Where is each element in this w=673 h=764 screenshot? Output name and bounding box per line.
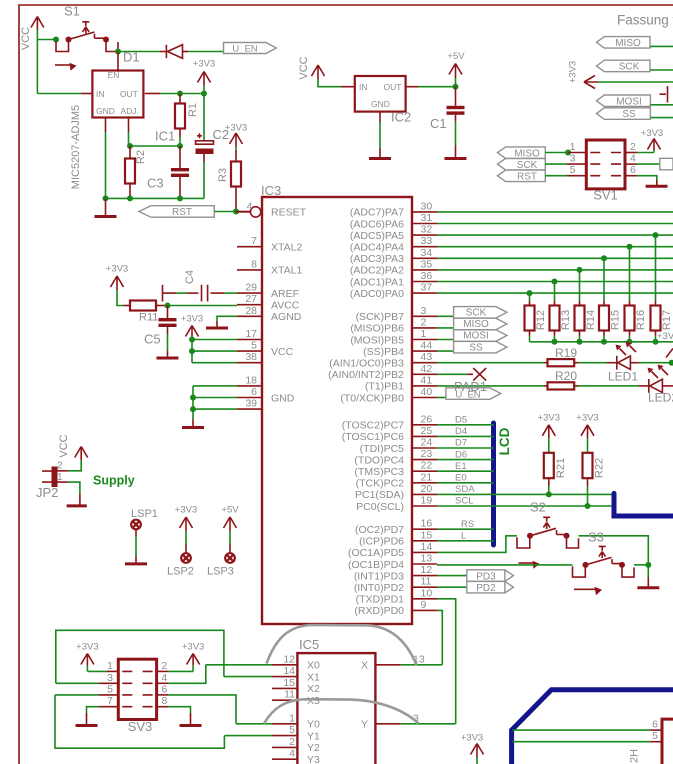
svg-text:JP2: JP2 bbox=[36, 485, 58, 500]
svg-text:6: 6 bbox=[652, 719, 658, 731]
svg-text:RS: RS bbox=[461, 519, 474, 530]
svg-text:24: 24 bbox=[421, 437, 433, 449]
switch S1 bbox=[55, 4, 118, 71]
svg-text:31: 31 bbox=[421, 212, 433, 224]
svg-text:RESET: RESET bbox=[271, 207, 307, 219]
wire X out to RXD bbox=[401, 664, 442, 666]
svg-text:44: 44 bbox=[421, 340, 433, 352]
resistor R3 bbox=[217, 150, 241, 212]
svg-text:38: 38 bbox=[245, 351, 257, 363]
svg-text:L: L bbox=[461, 531, 466, 542]
power VCC (IC2) bbox=[298, 56, 325, 79]
jumper JP2 bbox=[36, 460, 68, 500]
svg-text:7: 7 bbox=[107, 695, 113, 707]
svg-text:R12: R12 bbox=[535, 310, 547, 330]
net flag RST bbox=[139, 206, 214, 218]
svg-text:(INT1)PD3: (INT1)PD3 bbox=[354, 570, 404, 582]
wire AVCC bbox=[168, 305, 238, 307]
wire JP2 pin1 to ground bbox=[68, 482, 80, 494]
svg-text:SDA: SDA bbox=[455, 484, 475, 495]
wire Y0 entry bbox=[236, 723, 272, 725]
pin 2 Y2 bbox=[272, 736, 297, 748]
wire SV3 pin5 (Y1 net) bbox=[55, 694, 99, 696]
svg-text:R14: R14 bbox=[585, 310, 597, 330]
svg-text:C5: C5 bbox=[144, 332, 161, 347]
svg-text:23: 23 bbox=[421, 448, 433, 460]
svg-text:MISO: MISO bbox=[615, 38, 641, 49]
switch S2 bbox=[517, 500, 579, 569]
wire Y out to TXD bbox=[401, 723, 456, 725]
svg-text:VCC: VCC bbox=[20, 27, 32, 50]
wire S3 out bbox=[634, 564, 648, 566]
net flag RST (SV1) bbox=[498, 170, 546, 182]
pin 27 AVCC bbox=[237, 293, 300, 311]
svg-text:+3V3: +3V3 bbox=[193, 59, 215, 70]
wire IC2 OUT bbox=[406, 86, 418, 88]
pin 6 GND bbox=[237, 386, 295, 404]
svg-text:X0: X0 bbox=[307, 660, 320, 672]
svg-text:2: 2 bbox=[630, 141, 636, 153]
wire D1 to U_EN bbox=[188, 51, 224, 53]
ground (IC1) bbox=[95, 198, 117, 216]
svg-text:GND: GND bbox=[96, 106, 115, 116]
pin 22 (TMS)PC3 bbox=[354, 460, 437, 478]
svg-text:3: 3 bbox=[570, 153, 576, 165]
pin 31 (ADC6)PA6 bbox=[350, 212, 437, 230]
svg-text:+3V3: +3V3 bbox=[576, 412, 598, 423]
svg-text:(ADC1)PA1: (ADC1)PA1 bbox=[350, 276, 404, 288]
svg-text:X: X bbox=[361, 660, 368, 672]
svg-text:VCC: VCC bbox=[271, 346, 294, 358]
svg-text:(SS)PB4: (SS)PB4 bbox=[363, 346, 404, 358]
power +3V3 (bottom) bbox=[461, 733, 484, 764]
svg-text:+3V3: +3V3 bbox=[538, 412, 560, 423]
svg-text:(OC1A)PD5: (OC1A)PD5 bbox=[348, 547, 404, 559]
svg-text:Fassung v: Fassung v bbox=[617, 13, 673, 28]
svg-text:+3V3: +3V3 bbox=[175, 505, 197, 516]
power +3V3 (above R1) bbox=[193, 59, 215, 94]
wire MISO bbox=[437, 327, 454, 329]
pin 17 VCC bbox=[237, 328, 262, 340]
ground (SV3 pin7) bbox=[76, 724, 98, 727]
svg-text:(OC1B)PD4: (OC1B)PD4 bbox=[348, 559, 404, 571]
pin 5 IC3-left bbox=[237, 340, 294, 358]
wire AGND to ground bbox=[217, 316, 237, 321]
svg-text:R21: R21 bbox=[555, 458, 567, 478]
net flag MISO (SV1) bbox=[498, 147, 546, 159]
pin 14 X1 bbox=[272, 665, 297, 677]
svg-text:MIC5207-ADJM5: MIC5207-ADJM5 bbox=[70, 105, 82, 189]
switch S3 bbox=[573, 530, 635, 596]
svg-text:IN: IN bbox=[359, 82, 368, 92]
svg-text:3: 3 bbox=[107, 672, 113, 684]
pad PAD1 (nc cross) bbox=[473, 368, 486, 381]
ground (S3) bbox=[637, 586, 659, 589]
pin 11 (INT0)PD2 bbox=[354, 576, 437, 594]
wire MOSI bbox=[437, 339, 454, 341]
svg-text:(MOSI)PB5: (MOSI)PB5 bbox=[350, 334, 404, 346]
ground (SV1) bbox=[646, 185, 668, 188]
arc mux Y (gray) bbox=[264, 699, 419, 724]
node junction VCC rail bbox=[189, 337, 195, 343]
node junction R22 bbox=[585, 503, 591, 509]
wire PA net (pin 36) bbox=[437, 281, 673, 283]
svg-text:15: 15 bbox=[421, 529, 433, 541]
svg-text:IC5: IC5 bbox=[299, 637, 319, 652]
pad LSP3 bbox=[207, 545, 235, 578]
svg-text:XTAL1: XTAL1 bbox=[271, 265, 302, 277]
wire X0 entry bbox=[206, 664, 272, 666]
wire RST to SV1 pin5 bbox=[545, 175, 567, 177]
svg-text:LSP2: LSP2 bbox=[167, 566, 194, 578]
svg-text:D6: D6 bbox=[455, 449, 467, 460]
svg-text:28: 28 bbox=[245, 305, 257, 317]
svg-text:LED2: LED2 bbox=[648, 391, 673, 405]
svg-text:AVCC: AVCC bbox=[271, 300, 300, 312]
svg-text:D4: D4 bbox=[455, 426, 467, 437]
net flag (cut, right of SV1) bbox=[660, 158, 673, 170]
svg-text:+3V3: +3V3 bbox=[461, 733, 483, 744]
node junction LED1 bbox=[669, 360, 673, 366]
svg-text:X3: X3 bbox=[307, 695, 320, 707]
resistor R16 bbox=[625, 244, 648, 342]
pin 13 (OC1B)PD4 bbox=[348, 553, 437, 571]
pin 33 (ADC4)PA4 bbox=[350, 235, 437, 253]
pin 20 PC1(SDA) bbox=[355, 483, 437, 501]
node junction R16 bottom bbox=[627, 339, 633, 345]
svg-text:X2: X2 bbox=[307, 683, 320, 695]
svg-text:R2: R2 bbox=[135, 150, 147, 164]
svg-text:PC1(SDA): PC1(SDA) bbox=[355, 489, 404, 501]
net flag SS bbox=[454, 341, 507, 353]
pin 19 PC0(SCL) bbox=[356, 495, 437, 513]
svg-text:+5V: +5V bbox=[221, 505, 239, 516]
svg-text:(RXD)PD0: (RXD)PD0 bbox=[354, 605, 404, 617]
svg-text:(ADC6)PA6: (ADC6)PA6 bbox=[350, 218, 404, 230]
wire RS to bus bbox=[437, 528, 494, 530]
svg-text:15: 15 bbox=[283, 677, 295, 689]
svg-text:2: 2 bbox=[289, 736, 295, 748]
svg-text:SCK: SCK bbox=[517, 160, 538, 171]
svg-text:XTAL2: XTAL2 bbox=[271, 242, 302, 254]
svg-text:+3V3: +3V3 bbox=[568, 61, 579, 83]
svg-text:PC0(SCL): PC0(SCL) bbox=[356, 501, 404, 513]
svg-text:2: 2 bbox=[57, 460, 63, 471]
wire PD3 bbox=[437, 575, 467, 577]
node junction gnd rail bbox=[103, 195, 109, 201]
pin 2 (MISO)PB6 bbox=[350, 316, 437, 334]
svg-text:(TDO)PC4: (TDO)PC4 bbox=[354, 454, 404, 466]
svg-text:4: 4 bbox=[289, 748, 295, 760]
svg-text:C1: C1 bbox=[430, 116, 447, 131]
svg-text:2: 2 bbox=[421, 316, 427, 328]
resistor R14 bbox=[575, 267, 598, 342]
pin 12 X0 bbox=[272, 653, 297, 665]
wire IC2 GND pin bbox=[379, 112, 381, 157]
net flag SS bbox=[597, 108, 651, 120]
ground (LSP1) bbox=[125, 562, 147, 565]
svg-text:(AIN0/INT2)PB2: (AIN0/INT2)PB2 bbox=[328, 369, 404, 381]
pin 7 XTAL2 bbox=[237, 235, 302, 253]
wire VCC vertical to IN bbox=[36, 30, 38, 94]
svg-text:S3: S3 bbox=[588, 530, 604, 545]
pin 30 (ADC7)PA7 bbox=[350, 200, 437, 218]
wire PD4 to S3 bbox=[437, 564, 573, 566]
wire IC2 IN pin bbox=[341, 86, 355, 88]
svg-text:(INT0)PD2: (INT0)PD2 bbox=[354, 582, 404, 594]
pin 4 Y3 bbox=[272, 748, 297, 760]
svg-text:E0: E0 bbox=[455, 473, 467, 484]
wire SV3 pin8 to ground bbox=[157, 706, 168, 708]
pin 25 (TOSC1)PC6 bbox=[342, 425, 437, 443]
ic IC3 (microcontroller) bbox=[261, 183, 412, 624]
node junction R11/C4/C5/AVCC bbox=[165, 303, 171, 309]
wire IN bbox=[37, 93, 81, 95]
power +3V3 (VCC pins) bbox=[181, 314, 203, 340]
wire E1 to bus bbox=[437, 470, 494, 472]
svg-text:OUT: OUT bbox=[120, 89, 138, 99]
capacitor C1 bbox=[430, 87, 465, 157]
wire PB3 to R19 bbox=[437, 362, 544, 364]
svg-text:(TCK)PC2: (TCK)PC2 bbox=[356, 478, 405, 490]
resistor R21 bbox=[544, 453, 567, 495]
net flag U_EN (top) bbox=[224, 43, 277, 55]
svg-text:(TXD)PD1: (TXD)PD1 bbox=[356, 594, 405, 606]
svg-text:27: 27 bbox=[245, 293, 257, 305]
ground (C5) bbox=[157, 357, 179, 360]
node junction R13 bottom bbox=[552, 339, 558, 345]
wire SDA bbox=[437, 493, 614, 495]
svg-text:12: 12 bbox=[283, 653, 295, 665]
svg-text:C4: C4 bbox=[184, 270, 196, 284]
svg-text:S1: S1 bbox=[64, 4, 80, 19]
svg-text:(TDI)PC5: (TDI)PC5 bbox=[360, 443, 404, 455]
svg-text:34: 34 bbox=[421, 247, 433, 259]
pin 44 (SS)PB4 bbox=[363, 340, 437, 358]
wire PA net (pin 33) bbox=[437, 246, 673, 248]
pin 29 AREF bbox=[237, 282, 299, 300]
bus LCD (vertical) bbox=[491, 423, 496, 545]
svg-text:20: 20 bbox=[421, 483, 433, 495]
wire PA7 net bbox=[437, 211, 673, 213]
net flag U_EN (PB0) bbox=[446, 388, 501, 401]
net flag SCK (SV1) bbox=[498, 159, 546, 171]
pin 14 (OC1A)PD5 bbox=[348, 541, 437, 559]
svg-text:5: 5 bbox=[289, 724, 295, 736]
svg-text:ADJ: ADJ bbox=[121, 106, 137, 116]
pin 41 (T1)PB1 bbox=[365, 374, 437, 392]
pin 23 (TDO)PC4 bbox=[354, 448, 437, 466]
svg-text:VCC: VCC bbox=[58, 434, 70, 457]
svg-text:(TOSC1)PC6: (TOSC1)PC6 bbox=[342, 431, 404, 443]
pin 1 Y0 bbox=[272, 712, 297, 724]
wire LCD pin6 bbox=[513, 729, 651, 731]
power +5V (LSP3) bbox=[221, 505, 239, 545]
node junction R21 bbox=[546, 491, 552, 497]
wire SCK bbox=[650, 69, 673, 71]
pad LSP1 bbox=[131, 508, 158, 563]
svg-text:32: 32 bbox=[421, 224, 433, 236]
wire PB0 to U_EN bbox=[437, 397, 446, 399]
node junction GND rail bbox=[190, 395, 196, 401]
wire L to bus bbox=[437, 540, 494, 542]
svg-text:4: 4 bbox=[630, 153, 636, 165]
svg-text:R3: R3 bbox=[217, 168, 229, 182]
wire SCL bbox=[437, 505, 614, 507]
wire SV3 pin4 (X0 net) bbox=[157, 682, 168, 684]
svg-text:X1: X1 bbox=[307, 671, 320, 683]
svg-text:+3V3: +3V3 bbox=[657, 331, 673, 342]
svg-text:+3V3: +3V3 bbox=[182, 642, 204, 653]
svg-text:R20: R20 bbox=[555, 369, 577, 383]
capacitor C4 (AREF) bbox=[163, 270, 238, 302]
svg-text:+5V: +5V bbox=[447, 51, 465, 62]
wire MISO to SV1 pin1 bbox=[545, 152, 566, 154]
power +3V3 (R11) bbox=[106, 264, 128, 306]
svg-text:E1: E1 bbox=[455, 461, 467, 472]
wire +3V3 rail (resistors) bbox=[530, 341, 673, 343]
svg-text:35: 35 bbox=[421, 258, 433, 270]
wire SV3 pin6 (Y0 net) bbox=[157, 694, 168, 696]
net flag MOSI bbox=[597, 95, 651, 107]
svg-text:GND: GND bbox=[371, 99, 390, 109]
wire ground rail y198 bbox=[106, 197, 205, 199]
resistor R11 bbox=[124, 301, 168, 324]
svg-text:Y1: Y1 bbox=[307, 730, 320, 742]
svg-text:LED1: LED1 bbox=[608, 370, 638, 384]
wire RST to pin4 bbox=[214, 211, 236, 213]
net flag MOSI bbox=[454, 330, 507, 342]
svg-text:7: 7 bbox=[251, 235, 257, 247]
pin 11 X3 bbox=[272, 689, 297, 701]
bus LCD (corner to right) bbox=[614, 493, 673, 516]
svg-text:21: 21 bbox=[421, 471, 433, 483]
svg-text:8: 8 bbox=[162, 695, 168, 707]
led LED2 bbox=[639, 365, 673, 405]
wire LED1 to +3V3 bbox=[639, 362, 672, 364]
svg-text:41: 41 bbox=[421, 374, 433, 386]
svg-text:SCK: SCK bbox=[466, 308, 487, 319]
power +3V3 (SV3 pin2) bbox=[182, 642, 204, 672]
svg-text:40: 40 bbox=[421, 386, 433, 398]
svg-text:PAD1: PAD1 bbox=[454, 379, 487, 394]
resistor R13 bbox=[550, 279, 573, 342]
svg-text:(T1)PB1: (T1)PB1 bbox=[365, 381, 404, 393]
resistor R15 bbox=[599, 255, 622, 342]
svg-text:SCL: SCL bbox=[455, 496, 473, 507]
wire X1 loop bbox=[56, 630, 224, 683]
pin 24 (TDI)PC5 bbox=[360, 437, 437, 455]
pin 28 AGND bbox=[237, 305, 302, 323]
resistor R2 bbox=[125, 146, 147, 198]
svg-text:U_EN: U_EN bbox=[232, 43, 257, 54]
svg-text:(SCK)PB7: (SCK)PB7 bbox=[356, 311, 405, 323]
net flag MISO bbox=[454, 318, 507, 330]
pin 8 XTAL1 bbox=[237, 258, 302, 276]
svg-text:13: 13 bbox=[421, 553, 433, 565]
wire R20 to LED2 bbox=[579, 385, 640, 387]
svg-text:RST: RST bbox=[517, 172, 537, 183]
svg-text:5: 5 bbox=[652, 730, 658, 742]
node junction R3/RST bbox=[233, 209, 239, 215]
pin 3 (SCK)PB7 bbox=[356, 305, 437, 323]
svg-text:MISO: MISO bbox=[463, 319, 489, 330]
wire SV1 pin6 to ground bbox=[625, 175, 637, 177]
pin 43 (AIN1/OC0)PB3 bbox=[329, 351, 437, 369]
ground (AGND) bbox=[206, 327, 228, 330]
wire ADJ net (y146) bbox=[130, 145, 180, 147]
svg-text:14: 14 bbox=[283, 665, 295, 677]
svg-text:+3V3: +3V3 bbox=[106, 264, 128, 275]
svg-text:LCD: LCD bbox=[497, 427, 512, 455]
net flag PD2 bbox=[467, 581, 514, 594]
svg-text:LSP1: LSP1 bbox=[131, 508, 158, 520]
svg-text:17: 17 bbox=[245, 328, 257, 340]
wire VCC to S1 bbox=[37, 39, 56, 41]
pin 9 (RXD)PD0 bbox=[354, 599, 437, 617]
ground (IC3 GND) bbox=[182, 426, 204, 429]
node junction +5V/C1 bbox=[453, 84, 459, 90]
wire VCC rail (pins 17/5/38) bbox=[192, 340, 237, 363]
ic IC5 (analog mux) bbox=[297, 637, 375, 764]
wire MISO bbox=[650, 45, 673, 47]
svg-text:MISO: MISO bbox=[514, 148, 540, 159]
svg-text:2H: 2H bbox=[629, 749, 641, 763]
regulator IC2 bbox=[355, 76, 411, 125]
wire SV1 pin2 to +3V3 bbox=[625, 152, 637, 154]
wire VCC to JP2 pin2 bbox=[68, 460, 81, 471]
svg-text:11: 11 bbox=[421, 576, 432, 588]
svg-text:36: 36 bbox=[421, 270, 433, 282]
ground (JP2) bbox=[67, 504, 87, 507]
svg-text:1: 1 bbox=[421, 328, 427, 340]
wire SS bbox=[437, 350, 454, 352]
pin 5 Y1 bbox=[272, 724, 297, 736]
wire SV3 pin2 to +3V3 bbox=[157, 670, 168, 672]
svg-text:S2: S2 bbox=[530, 500, 546, 515]
svg-text:(OC2)PD7: (OC2)PD7 bbox=[355, 524, 404, 536]
svg-text:+3V3: +3V3 bbox=[181, 314, 203, 325]
svg-text:1: 1 bbox=[107, 660, 113, 672]
wire to ground (S3) bbox=[647, 565, 649, 577]
svg-text:4: 4 bbox=[162, 672, 168, 684]
wire PA6 net bbox=[437, 223, 673, 225]
resistor R12 bbox=[525, 290, 548, 342]
svg-text:VCC: VCC bbox=[298, 56, 310, 79]
node junction C2 top bbox=[201, 91, 207, 97]
pin 4 RESET bbox=[237, 200, 307, 218]
svg-text:(MISO)PB6: (MISO)PB6 bbox=[350, 323, 404, 335]
svg-text:8: 8 bbox=[251, 258, 257, 270]
pin 21 (TCK)PC2 bbox=[356, 471, 437, 489]
pin 42 (AIN0/INT2)PB2 bbox=[328, 363, 437, 381]
node junction R14 bottom bbox=[577, 339, 583, 345]
svg-text:5: 5 bbox=[107, 683, 113, 695]
capacitor C5 bbox=[144, 306, 177, 357]
capacitor stub (cut, top right) bbox=[660, 86, 668, 103]
svg-text:+3V3: +3V3 bbox=[76, 642, 98, 653]
node junction R1/C3 bbox=[177, 143, 183, 149]
resistor R1 bbox=[175, 94, 199, 138]
wire OUT bbox=[145, 93, 160, 95]
svg-text:(ADC0)PA0: (ADC0)PA0 bbox=[350, 288, 404, 300]
resistor R22 bbox=[583, 453, 606, 506]
capacitor C3 bbox=[147, 146, 189, 198]
svg-text:(ADC7)PA7: (ADC7)PA7 bbox=[350, 207, 404, 219]
svg-text:19: 19 bbox=[421, 495, 433, 507]
svg-text:R22: R22 bbox=[594, 458, 606, 478]
svg-text:Y0: Y0 bbox=[307, 719, 320, 731]
